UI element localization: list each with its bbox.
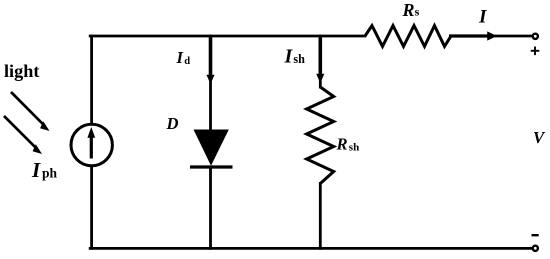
svg-text:sh: sh bbox=[293, 52, 305, 66]
svg-text:D: D bbox=[166, 114, 179, 133]
svg-text:V: V bbox=[533, 128, 546, 147]
svg-text:I: I bbox=[176, 48, 184, 67]
svg-text:R: R bbox=[402, 0, 415, 20]
svg-text:sh: sh bbox=[349, 141, 359, 153]
svg-text:s: s bbox=[415, 5, 420, 19]
svg-text:ph: ph bbox=[42, 166, 58, 181]
svg-text:I: I bbox=[31, 158, 41, 182]
svg-text:d: d bbox=[184, 56, 190, 67]
svg-text:I: I bbox=[284, 45, 294, 67]
svg-text:I: I bbox=[478, 7, 488, 28]
svg-text:R: R bbox=[336, 135, 348, 154]
svg-text:light: light bbox=[4, 61, 39, 81]
